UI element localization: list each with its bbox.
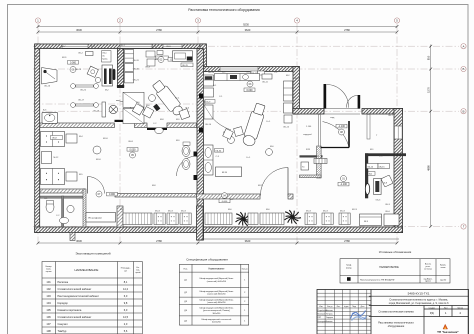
svg-text:город Московский, ул. Георгиев: город Московский, ул. Георгиевская, д. 9… (389, 301, 449, 305)
svg-text:Сидоров: Сидоров (326, 317, 333, 319)
svg-text:5485-КУ15-ТХ1: 5485-КУ15-ТХ1 (408, 292, 430, 296)
svg-text:М-10: М-10 (103, 138, 109, 140)
svg-text:Лист: Лист (444, 307, 448, 309)
svg-text:Lучи 30: Lучи 30 (440, 279, 446, 281)
svg-text:оборудования: оборудования (388, 325, 405, 328)
svg-text:ОБ-16: ОБ-16 (133, 69, 140, 71)
svg-text:чание: чание (441, 267, 446, 269)
dental unit ОБ-22 (71, 84, 99, 89)
svg-text:9,8: 9,8 (124, 301, 128, 305)
svg-text:1.100: 1.100 (306, 126, 312, 128)
svg-text:2,0: 2,0 (124, 322, 128, 326)
wall exterior left (35, 44, 40, 233)
table: экспликация помещений grid (42, 262, 142, 334)
sidewalk line below bottom wall (203, 238, 399, 240)
rotated stools middle room (223, 129, 234, 140)
cabinet unit with dark doors (102, 65, 113, 86)
shaft wall (117, 49, 123, 88)
svg-text:Площадь,: Площадь, (121, 268, 131, 270)
staff room armchair (93, 146, 101, 154)
room marker small surgery (168, 58, 179, 62)
room marker 106 (68, 61, 79, 65)
xray machine (374, 179, 382, 195)
svg-text:ОБ-12: ОБ-12 (246, 72, 253, 74)
svg-text:М-13: М-13 (340, 211, 346, 213)
label box ОБ-1 (102, 51, 112, 62)
svg-text:300х250: 300х250 (213, 313, 222, 315)
svg-text:Шкаф медицинский стеклянный: Шкаф медицинский стеклянный (202, 318, 232, 321)
svg-text:3630: 3630 (76, 239, 82, 243)
wall exterior top-right section (200, 67, 299, 72)
svg-text:Расстановка технологического о: Расстановка технологического оборудовани… (188, 8, 260, 12)
wall interior corridor wall east part a (135, 123, 148, 128)
svg-text:Козлова: Козлова (326, 321, 332, 323)
dental unit ОБ-17 (71, 103, 99, 108)
svg-text:108: 108 (46, 329, 51, 333)
svg-text:Иванова: Иванова (326, 310, 333, 312)
svg-text:2780: 2780 (156, 239, 162, 243)
svg-text:НАИМЕНОВАНИЕ: НАИМЕНОВАНИЕ (379, 266, 399, 269)
wc fixtures (46, 202, 54, 213)
cabinet ОБ-16 left wall (42, 68, 58, 85)
axis bubbles top (35, 18, 40, 23)
stool square left (142, 107, 153, 118)
armchairs М-13 left group (154, 213, 165, 225)
X-pattern storage units (123, 92, 144, 123)
table: условные обозначения grid (340, 259, 450, 283)
wall exterior bottom (35, 227, 403, 233)
svg-text:ОБ-3: ОБ-3 (145, 67, 151, 69)
svg-text:№док: №док (344, 305, 349, 308)
title block left grid (317, 290, 371, 334)
svg-text:6,0: 6,0 (124, 308, 128, 312)
svg-text:Шкаф медицинский (Верхний) Элм: Шкаф медицинский (Верхний) Элма (200, 290, 235, 293)
cabinet ОБ-6 (384, 214, 399, 226)
sinks on central wall lower (182, 146, 190, 157)
svg-text:ОБ-76: ОБ-76 (182, 65, 189, 67)
svg-text:ОБ-1: ОБ-1 (102, 53, 106, 55)
door: vestibule to hall (348, 121, 350, 148)
mirror bar (102, 102, 106, 117)
svg-text:ОБ-3: ОБ-3 (385, 204, 391, 206)
svg-text:9230: 9230 (243, 23, 249, 27)
closet box (301, 162, 309, 170)
top dimension line segments (38, 31, 397, 33)
svg-text:2780: 2780 (156, 28, 162, 32)
svg-text:Комната персонала: Комната персонала (58, 308, 82, 312)
svg-text:105: 105 (46, 308, 51, 312)
coat rack (314, 159, 327, 164)
staff room sofas (41, 132, 65, 147)
wall central bearing wall (197, 49, 204, 240)
svg-text:Граф.: Граф. (346, 264, 352, 267)
svg-text:Шкаф медицинский (Верхний) Элм: Шкаф медицинский (Верхний) Элма (200, 298, 235, 301)
wall exterior right (394, 109, 403, 233)
svg-text:КУИ: КУИ (306, 149, 311, 151)
svg-text:гардероб: гардероб (303, 134, 313, 136)
wall front wall west of entrance (293, 109, 324, 115)
svg-text:щения: щения (46, 271, 52, 273)
svg-text:0.000: 0.000 (222, 201, 228, 203)
svg-text:(от пола): (от пола) (424, 269, 432, 271)
svg-text:2780: 2780 (344, 239, 350, 243)
svg-text:ОБ-9: ОБ-9 (206, 101, 212, 103)
armchairs М-13 right group (305, 213, 316, 225)
svg-text:Кол.уч: Кол.уч (327, 306, 332, 308)
entrance door big leaf arc (327, 85, 349, 108)
svg-text:14,2: 14,2 (123, 287, 129, 291)
top dimension line total (38, 26, 397, 28)
svg-text:ОБ-2: ОБ-2 (90, 46, 96, 48)
wall interior corridor wall east part b (167, 123, 197, 128)
svg-text:ОБ-15: ОБ-15 (379, 166, 386, 168)
wall treatment room south wall west (197, 194, 261, 199)
svg-text:0.000: 0.000 (130, 148, 137, 151)
svg-text:ОБ-30: ОБ-30 (215, 150, 222, 152)
sink unit on central wall east side (204, 145, 214, 175)
door: central wall to treatment room (199, 94, 203, 99)
wall central pier below (197, 206, 204, 240)
door: treatment room south (287, 168, 289, 196)
svg-text:М-13: М-13 (306, 211, 312, 213)
xray tomograph pillar (365, 184, 369, 195)
svg-text:В-Н: В-Н (152, 46, 156, 48)
svg-text:Стоматологический кабинет: Стоматологический кабинет (58, 287, 93, 291)
svg-text:М-12: М-12 (54, 157, 60, 159)
svg-text:ОБ-5: ОБ-5 (166, 46, 172, 48)
palm plant 1 (236, 212, 253, 226)
svg-text:ТП "Базисник": ТП "Базисник" (437, 330, 459, 334)
reception room marker (341, 176, 347, 182)
svg-text:ОБ-13: ОБ-13 (313, 156, 320, 158)
svg-text:ОБ-22: ОБ-22 (80, 90, 87, 92)
svg-text:4880: 4880 (427, 165, 431, 171)
extra centerline through left rooms (33, 103, 196, 105)
bottom dimension line (38, 242, 397, 244)
svg-text:3630: 3630 (76, 28, 82, 32)
svg-text:Стоматологическая клиника по а: Стоматологическая клиника по адресу: г. … (389, 297, 448, 301)
svg-text:ОБ-11: ОБ-11 (294, 78, 301, 80)
svg-text:4х20х250: 4х20х250 (212, 322, 222, 324)
entrance door small leaf arc (347, 95, 358, 107)
reception desk М-3 (360, 214, 382, 226)
svg-text:В: В (462, 109, 464, 113)
svg-text:М-13: М-13 (181, 211, 187, 213)
boxed label pair middle room (251, 71, 265, 75)
svg-text:УБ шкафчики: УБ шкафчики (88, 216, 102, 219)
svg-text:Рентгенодиагностический кабине: Рентгенодиагностический кабинет (58, 294, 100, 298)
svg-text:ОБ-8: ОБ-8 (128, 141, 134, 143)
legend data row (347, 277, 351, 281)
svg-text:М-13: М-13 (352, 209, 358, 211)
staff room marker (127, 148, 138, 152)
svg-text:Листов: Листов (457, 307, 463, 309)
svg-text:(навесной) 4х20х250: (навесной) 4х20х250 (207, 280, 227, 283)
vestibule room marker (336, 124, 347, 128)
entrance door jamb right (358, 95, 361, 109)
title block right rows (369, 296, 469, 334)
wall staff room south wall (40, 189, 85, 193)
svg-text:102: 102 (46, 287, 51, 291)
svg-text:0.000: 0.000 (70, 61, 77, 64)
svg-text:ОБ-19: ОБ-19 (93, 111, 100, 113)
svg-text:Эл.: Эл. (102, 56, 105, 58)
svg-text:ОБ-16: ОБ-16 (44, 86, 51, 88)
wall interior corridor wall west part (40, 123, 115, 128)
svg-text:ОБ-15: ОБ-15 (283, 127, 290, 129)
boxed label pair room 102 (156, 56, 169, 60)
svg-text:ОБ-11: ОБ-11 (262, 82, 269, 84)
svg-text:М-13: М-13 (155, 211, 161, 213)
blue approval signature scribble (351, 311, 367, 321)
svg-text:Экспликация помещений: Экспликация помещений (75, 252, 110, 256)
svg-text:3620: 3620 (245, 239, 251, 243)
svg-text:Тумба: Тумба (102, 59, 107, 61)
entrance door jamb left (324, 84, 327, 109)
svg-text:104: 104 (46, 301, 51, 305)
axis centerlines horizontal (33, 45, 459, 47)
svg-text:Тамбур: Тамбур (58, 329, 67, 333)
light symbol (109, 105, 117, 113)
svg-text:(уров.): (уров.) (425, 281, 431, 283)
svg-text:(рентгенозащитный, Помещ): (рентгенозащитный, Помещ) (203, 309, 230, 312)
svg-text:(навесной) 300х250: (навесной) 300х250 (207, 292, 226, 295)
washbasin unit on corridor wall (42, 112, 58, 123)
svg-text:Коридор: Коридор (58, 301, 69, 305)
title block frame (317, 290, 469, 334)
svg-text:5,6: 5,6 (124, 329, 128, 333)
svg-text:106: 106 (46, 315, 51, 319)
svg-text:-1.100: -1.100 (340, 183, 347, 186)
svg-text:-1.100: -1.100 (338, 125, 345, 128)
wc partition walls (40, 196, 85, 198)
wall step between sections (200, 44, 207, 72)
svg-text:ОБ-3: ОБ-3 (376, 200, 382, 202)
svg-text:Б: Б (463, 67, 465, 71)
rotated chair in corridor (132, 104, 144, 116)
svg-text:Шкаф медицинский (Верхний) Элм: Шкаф медицинский (Верхний) Элма (200, 306, 235, 309)
svg-text:2780: 2780 (344, 28, 350, 32)
wc room marker (107, 192, 118, 196)
svg-text:Наименование: Наименование (208, 269, 225, 271)
svg-text:Спецификация оборудования: Спецификация оборудования (186, 258, 228, 262)
svg-text:ОБ-6: ОБ-6 (398, 209, 404, 211)
wall exterior top-left section (35, 44, 206, 49)
svg-text:3620: 3620 (245, 28, 251, 32)
svg-text:107: 107 (46, 322, 51, 326)
axis bubbles right (461, 44, 466, 49)
svg-text:Дата: Дата (361, 306, 365, 308)
sliding door bar room 102 (147, 128, 167, 130)
svg-text:ОБ-17: ОБ-17 (78, 100, 85, 102)
svg-text:М-10: М-10 (96, 159, 102, 161)
worktop along top wall middle room (215, 74, 260, 81)
wall treatment room south wall jamb (288, 194, 293, 199)
svg-text:103: 103 (46, 294, 51, 298)
svg-text:ОБ-6: ОБ-6 (385, 211, 391, 213)
bench и palm right section (260, 213, 284, 225)
svg-text:РД: РД (430, 311, 434, 315)
svg-text:ОБ-26: ОБ-26 (133, 60, 140, 62)
pier stubs below bottom wall (70, 233, 75, 241)
svg-text:1570: 1570 (427, 87, 431, 93)
svg-text:Подп: Подп (352, 306, 356, 308)
chair rotated (87, 66, 98, 77)
svg-text:6,0: 6,0 (124, 294, 128, 298)
xray room partitions (365, 153, 406, 156)
svg-text:ОБ-14: ОБ-14 (367, 166, 374, 168)
svg-text:0.000: 0.000 (247, 89, 254, 92)
right dimension line (430, 45, 432, 227)
table: спецификация оборудования grid (179, 264, 248, 325)
small box on top wall (86, 52, 94, 56)
svg-text:Проверил: Проверил (318, 314, 326, 316)
black pill mirror (113, 69, 116, 80)
svg-text:ОБ-7: ОБ-7 (44, 48, 50, 50)
svg-text:М-13: М-13 (323, 211, 329, 213)
stool square right (179, 109, 190, 120)
svg-text:810: 810 (427, 55, 431, 60)
svg-text:ОБ-23: ОБ-23 (75, 69, 82, 71)
dental chair middle room (241, 102, 267, 147)
svg-text:Петрова: Петрова (326, 314, 333, 316)
svg-text:НАИМЕНОВАНИЕ: НАИМЕНОВАНИЕ (74, 268, 98, 272)
dental chair diagonal (151, 79, 185, 118)
svg-text:0.000: 0.000 (109, 193, 116, 196)
svg-text:М-13: М-13 (168, 211, 174, 213)
lockers (86, 213, 116, 223)
window openings (white with sill lines) (62, 44, 88, 48)
svg-text:ОБ-1: ОБ-1 (120, 45, 126, 47)
svg-text:Стоматологический кабинет: Стоматологический кабинет (58, 315, 93, 319)
svg-text:М-15: М-15 (222, 172, 228, 174)
bench slats corridor (123, 213, 152, 225)
room marker middle surgery (247, 81, 253, 87)
svg-text:ОБ-21: ОБ-21 (133, 80, 140, 82)
svg-text:Лист: Лист (337, 306, 341, 308)
door: staff room (87, 177, 89, 194)
svg-text:ОБ-2: ОБ-2 (78, 53, 84, 55)
sink on corridor counter (155, 127, 163, 133)
svg-text:Кол-во: Кол-во (242, 269, 248, 271)
xray rotated chair (381, 175, 393, 187)
svg-text:Стоматологическая клиника: Стоматологическая клиника (378, 310, 414, 314)
svg-text:А: А (462, 44, 464, 48)
svg-text:Напольный указатель "НЕ ВХОДИТ: Напольный указатель "НЕ ВХОДИТЬ" (360, 278, 395, 281)
wall front wall east of entrance (362, 109, 403, 115)
cabinets right of shaft (125, 50, 134, 83)
axis centerlines vertical (37, 24, 39, 243)
svg-text:101: 101 (46, 280, 51, 284)
svg-text:изобр.: изобр. (346, 268, 352, 270)
small boxes top (146, 51, 163, 67)
svg-text:щений: щений (135, 271, 140, 274)
company logo (443, 324, 448, 329)
svg-text:ОБ-10: ОБ-10 (208, 72, 215, 74)
svg-text:Шкаф медицинский (Верхний) Элм: Шкаф медицинский (Верхний) Элма (200, 277, 235, 280)
right wall cabinet (284, 81, 293, 123)
svg-text:Ресепшн: Ресепшн (58, 280, 69, 284)
vestibule glass partitions (318, 115, 320, 147)
entrance threshold (324, 108, 360, 110)
svg-text:Санузел: Санузел (58, 322, 69, 326)
svg-text:гард.: гард. (330, 117, 335, 119)
door: corridor to lower hall in central wall (194, 152, 198, 157)
svg-text:Стадия: Стадия (429, 307, 435, 309)
svg-text:Поз.: Поз. (184, 269, 189, 271)
svg-text:8,1: 8,1 (124, 280, 128, 284)
svg-text:ОБ-7: ОБ-7 (388, 115, 394, 117)
svg-text:(навесной) 600х250: (навесной) 600х250 (207, 301, 226, 304)
wall corridor pier 1 (117, 206, 123, 227)
staff room side table (42, 152, 52, 164)
wall vestibule left pier (293, 67, 300, 115)
svg-text:Условные обозначения: Условные обозначения (379, 250, 412, 254)
cabinet М-15 (216, 167, 242, 177)
closet partitions near vestibule (300, 155, 323, 157)
equipment table ОБ-12 (173, 51, 193, 62)
wall corridor lockers wall (115, 194, 197, 198)
cabinets along central wall (204, 75, 214, 119)
svg-text:14,5: 14,5 (123, 315, 129, 319)
svg-text:ОБ-14: ОБ-14 (205, 124, 212, 126)
exit sign on pier (219, 199, 230, 203)
door: corridor opening black bar (115, 120, 135, 122)
